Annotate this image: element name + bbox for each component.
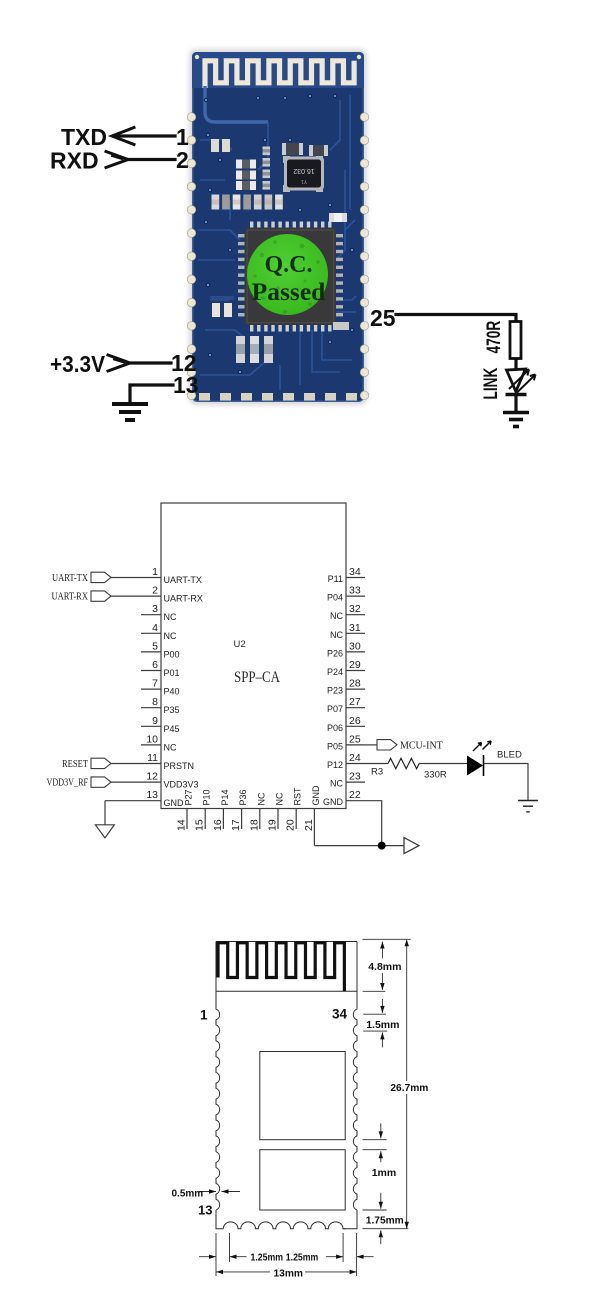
wire pin13 to ground: [130, 385, 173, 402]
wire LED to ground: [514, 395, 517, 412]
pin 13 (GND): [105, 789, 184, 808]
pin 31 (NC): [330, 622, 365, 640]
pin 1 (UART-TX): [111, 566, 202, 585]
pin 32 (NC): [330, 603, 365, 621]
pin 17 (P36): [230, 789, 248, 831]
svg-text:24: 24: [349, 752, 361, 764]
svg-text:22: 22: [349, 789, 361, 801]
pin 34 (P11): [328, 566, 365, 584]
svg-text:NC: NC: [330, 630, 343, 640]
pcb traces: [198, 95, 356, 390]
svg-text:P04: P04: [327, 593, 343, 603]
svg-text:NC: NC: [330, 779, 343, 789]
svg-text:NC: NC: [164, 742, 177, 752]
svg-text:21: 21: [303, 819, 315, 831]
dim 1mm: [372, 1123, 397, 1179]
wire pin12 +3.3V: [129, 361, 171, 364]
svg-text:0.5mm: 0.5mm: [172, 1189, 204, 1200]
svg-text:Passed: Passed: [252, 277, 326, 306]
svg-text:4.8mm: 4.8mm: [368, 961, 401, 973]
svg-text:UART-TX: UART-TX: [52, 573, 89, 584]
svg-text:13: 13: [198, 1203, 212, 1218]
pin 11 (PRSTN): [111, 752, 195, 771]
capacitor row: [212, 195, 283, 210]
wire LED to ground: [484, 764, 529, 801]
pin 24 (P12): [327, 752, 365, 770]
svg-text:NC: NC: [275, 792, 285, 805]
pin 8 (P35): [141, 696, 180, 715]
svg-text:NC: NC: [164, 612, 177, 622]
svg-text:1: 1: [152, 566, 158, 578]
svg-text:UART-RX: UART-RX: [164, 594, 203, 604]
svg-text:RESET: RESET: [62, 759, 88, 770]
svg-text:UART-TX: UART-TX: [164, 575, 202, 585]
svg-text:29: 29: [349, 659, 361, 671]
svg-text:5: 5: [152, 640, 158, 652]
svg-text:P11: P11: [328, 574, 343, 584]
pin 12 (VDD3V3): [111, 771, 199, 790]
wire pin21 GND: [314, 845, 404, 847]
ground arrow triangle: [404, 838, 419, 854]
svg-text:P27: P27: [184, 789, 194, 805]
IC pins: [238, 222, 343, 332]
svg-text:Q.C.: Q.C.: [265, 252, 313, 278]
svg-text:P00: P00: [164, 649, 180, 659]
dim 1.75mm: [366, 1193, 404, 1245]
svg-text:11: 11: [147, 752, 158, 764]
svg-text:SPP–CA: SPP–CA: [234, 669, 281, 686]
svg-text:BLED: BLED: [497, 750, 522, 761]
svg-text:GND: GND: [311, 785, 321, 806]
dim extension lines right: [363, 939, 411, 1228]
pin 18 (NC): [248, 792, 266, 831]
connector VDD3V_RF: [47, 777, 112, 789]
svg-text:3: 3: [152, 603, 158, 615]
ground symbol (photo, pin13): [112, 404, 148, 420]
svg-text:13: 13: [173, 372, 199, 398]
corner pads: [195, 55, 199, 59]
svg-text:13: 13: [146, 789, 158, 801]
small caps left of IC: [210, 296, 234, 317]
svg-text:P26: P26: [327, 648, 343, 658]
wire pin25: [365, 744, 377, 746]
wire pin2 RXD: [127, 158, 175, 161]
inner rect 2: [260, 1150, 345, 1210]
small caps top-left pair: [211, 139, 230, 152]
svg-text:P12: P12: [327, 760, 343, 770]
connector UART-TX: [52, 572, 111, 584]
pin 26 (P06): [327, 715, 365, 733]
svg-text:34: 34: [332, 1007, 348, 1022]
svg-text:9: 9: [152, 715, 158, 727]
wire pin25: [396, 315, 516, 323]
pin 15 (P10): [194, 789, 212, 831]
resistor 470R (photo): [510, 322, 521, 359]
svg-text:18: 18: [248, 819, 260, 831]
antenna area: [192, 52, 364, 88]
svg-text:330R: 330R: [424, 770, 447, 781]
svg-text:19: 19: [267, 819, 279, 831]
pin 2 (UART-RX): [111, 585, 203, 604]
wire pin22 GND: [365, 801, 382, 846]
LED LINK (photo): [506, 369, 536, 395]
bottom pads: [199, 393, 357, 401]
svg-text:17: 17: [230, 819, 242, 831]
dim 26.7mm: [389, 939, 429, 1228]
pin 30 (P26): [327, 640, 365, 658]
svg-text:1mm: 1mm: [372, 1167, 397, 1179]
svg-text:VDD3V3: VDD3V3: [164, 780, 199, 790]
svg-text:34: 34: [349, 566, 361, 578]
resistor R3 zigzag: [388, 758, 419, 768]
pin 27 (P07): [327, 696, 365, 714]
svg-text:P35: P35: [164, 705, 180, 715]
svg-text:16: 16: [212, 819, 224, 831]
pin 25 (P05): [327, 733, 365, 751]
connector MCU-INT: [377, 740, 443, 752]
pin 3 (NC): [141, 603, 177, 622]
LED BLED: [467, 741, 491, 776]
small part right: [329, 213, 347, 222]
svg-text:8: 8: [152, 696, 158, 708]
svg-text:LINK: LINK: [480, 368, 502, 400]
dim 1.25mm left: [199, 1253, 283, 1264]
svg-text:P36: P36: [238, 789, 248, 805]
svg-text:20: 20: [285, 819, 297, 831]
castellated pads: [187, 113, 369, 400]
pin 29 (P24): [327, 659, 365, 677]
wire pin13 GND: [104, 801, 106, 825]
dim 4.8mm: [368, 942, 401, 991]
svg-text:25: 25: [349, 733, 361, 745]
pin 33 (P04): [327, 585, 365, 603]
svg-text:MCU-INT: MCU-INT: [400, 740, 443, 751]
svg-text:RXD: RXD: [50, 148, 99, 174]
svg-text:2: 2: [176, 147, 189, 173]
svg-text:1.5mm: 1.5mm: [366, 1019, 399, 1031]
svg-text:UART-RX: UART-RX: [52, 592, 89, 603]
svg-text:P10: P10: [202, 789, 212, 805]
svg-text:33: 33: [349, 585, 361, 597]
svg-text:31: 31: [349, 622, 361, 634]
dim 1.5mm: [366, 999, 399, 1048]
IC U2 box: [161, 503, 346, 809]
svg-text:32: 32: [349, 603, 361, 615]
svg-text:23: 23: [349, 771, 361, 783]
PCB board: [192, 52, 364, 402]
pin 22 (GND): [323, 789, 365, 807]
svg-text:P06: P06: [327, 723, 343, 733]
svg-text:P14: P14: [220, 789, 230, 805]
svg-text:NC: NC: [256, 792, 266, 805]
IC body: [245, 228, 337, 326]
bottom dim extension lines: [216, 1233, 357, 1276]
pin 9 (P45): [141, 715, 180, 734]
wire pin24 to R3: [365, 763, 388, 765]
svg-text:P01: P01: [164, 668, 180, 678]
svg-text:14: 14: [176, 819, 188, 831]
svg-text:15: 15: [194, 819, 206, 831]
antenna meander (mechanical): [218, 943, 344, 992]
svg-text:P05: P05: [327, 741, 343, 751]
svg-text:P23: P23: [327, 686, 343, 696]
wire pin1 TXD: [114, 134, 175, 137]
svg-text:26.7mm: 26.7mm: [390, 1083, 428, 1094]
pin 5 (P00): [141, 640, 180, 659]
pcb trace from antenna: [205, 86, 268, 122]
wire resistor to LED: [514, 359, 517, 370]
svg-text:27: 27: [349, 696, 361, 708]
crystal oscillator: [283, 156, 324, 192]
pin 21 (GND): [303, 785, 321, 846]
svg-text:NC: NC: [330, 611, 343, 621]
pin 7 (P40): [141, 678, 180, 697]
svg-text:Y1: Y1: [301, 178, 307, 184]
svg-text:10: 10: [146, 733, 158, 745]
wire R3 to LED: [419, 763, 467, 765]
ground triangle (pin13): [95, 825, 114, 838]
dim 13mm: [216, 1269, 357, 1280]
svg-text:1.25mm: 1.25mm: [251, 1253, 284, 1264]
svg-text:1: 1: [200, 1008, 208, 1023]
svg-text:28: 28: [349, 678, 361, 690]
svg-text:P24: P24: [327, 667, 343, 677]
ground (BLED): [518, 801, 538, 812]
svg-text:PRSTN: PRSTN: [164, 761, 195, 771]
svg-text:P45: P45: [164, 724, 180, 734]
vias: [204, 94, 354, 374]
dim 0.5mm: [172, 1189, 241, 1200]
svg-text:12: 12: [146, 771, 158, 783]
pin 28 (P23): [327, 678, 365, 696]
ground symbol (photo, LED): [503, 413, 529, 427]
svg-text:P07: P07: [327, 704, 343, 714]
junction: [378, 842, 386, 850]
svg-text:+3.3V: +3.3V: [50, 351, 106, 377]
svg-text:30: 30: [349, 640, 361, 652]
pin 20 (RST): [285, 787, 303, 831]
svg-text:U2: U2: [234, 639, 246, 650]
svg-text:6: 6: [152, 659, 158, 671]
caps below IC: [236, 336, 273, 363]
pin 10 (NC): [141, 733, 177, 752]
pin 4 (NC): [141, 622, 177, 641]
resistors above crystal: [282, 143, 328, 156]
svg-text:7: 7: [152, 678, 158, 690]
svg-text:NC: NC: [164, 631, 177, 641]
svg-text:GND: GND: [323, 797, 344, 807]
svg-text:VDD3V_RF: VDD3V_RF: [47, 778, 89, 789]
inner rect 1: [260, 1052, 345, 1140]
svg-text:R3: R3: [371, 767, 383, 778]
pin 23 (NC): [330, 771, 365, 789]
svg-text:2: 2: [152, 585, 158, 597]
dim 1.25mm right: [286, 1253, 374, 1264]
svg-text:4: 4: [152, 622, 158, 634]
PCB module photo: [187, 49, 369, 405]
svg-text:16.032: 16.032: [293, 167, 315, 174]
pin 14 (P27): [176, 789, 194, 831]
svg-text:470R: 470R: [483, 321, 505, 354]
svg-text:GND: GND: [164, 798, 185, 808]
svg-text:TXD: TXD: [61, 124, 107, 150]
svg-text:25: 25: [370, 305, 396, 331]
svg-text:1.25mm: 1.25mm: [286, 1253, 319, 1264]
svg-text:13mm: 13mm: [274, 1269, 303, 1280]
svg-text:P40: P40: [164, 687, 180, 697]
mechanical module outline: [216, 942, 357, 1229]
pin 6 (P01): [141, 659, 180, 678]
connector RESET: [62, 758, 111, 770]
pin 19 (NC): [267, 792, 285, 831]
pin 16 (P14): [212, 789, 230, 831]
resistor array left: [236, 147, 270, 191]
svg-text:1.75mm: 1.75mm: [366, 1216, 404, 1227]
svg-text:26: 26: [349, 715, 361, 727]
svg-text:RST: RST: [293, 787, 303, 806]
antenna trace: [205, 61, 354, 88]
connector UART-RX: [52, 591, 112, 603]
